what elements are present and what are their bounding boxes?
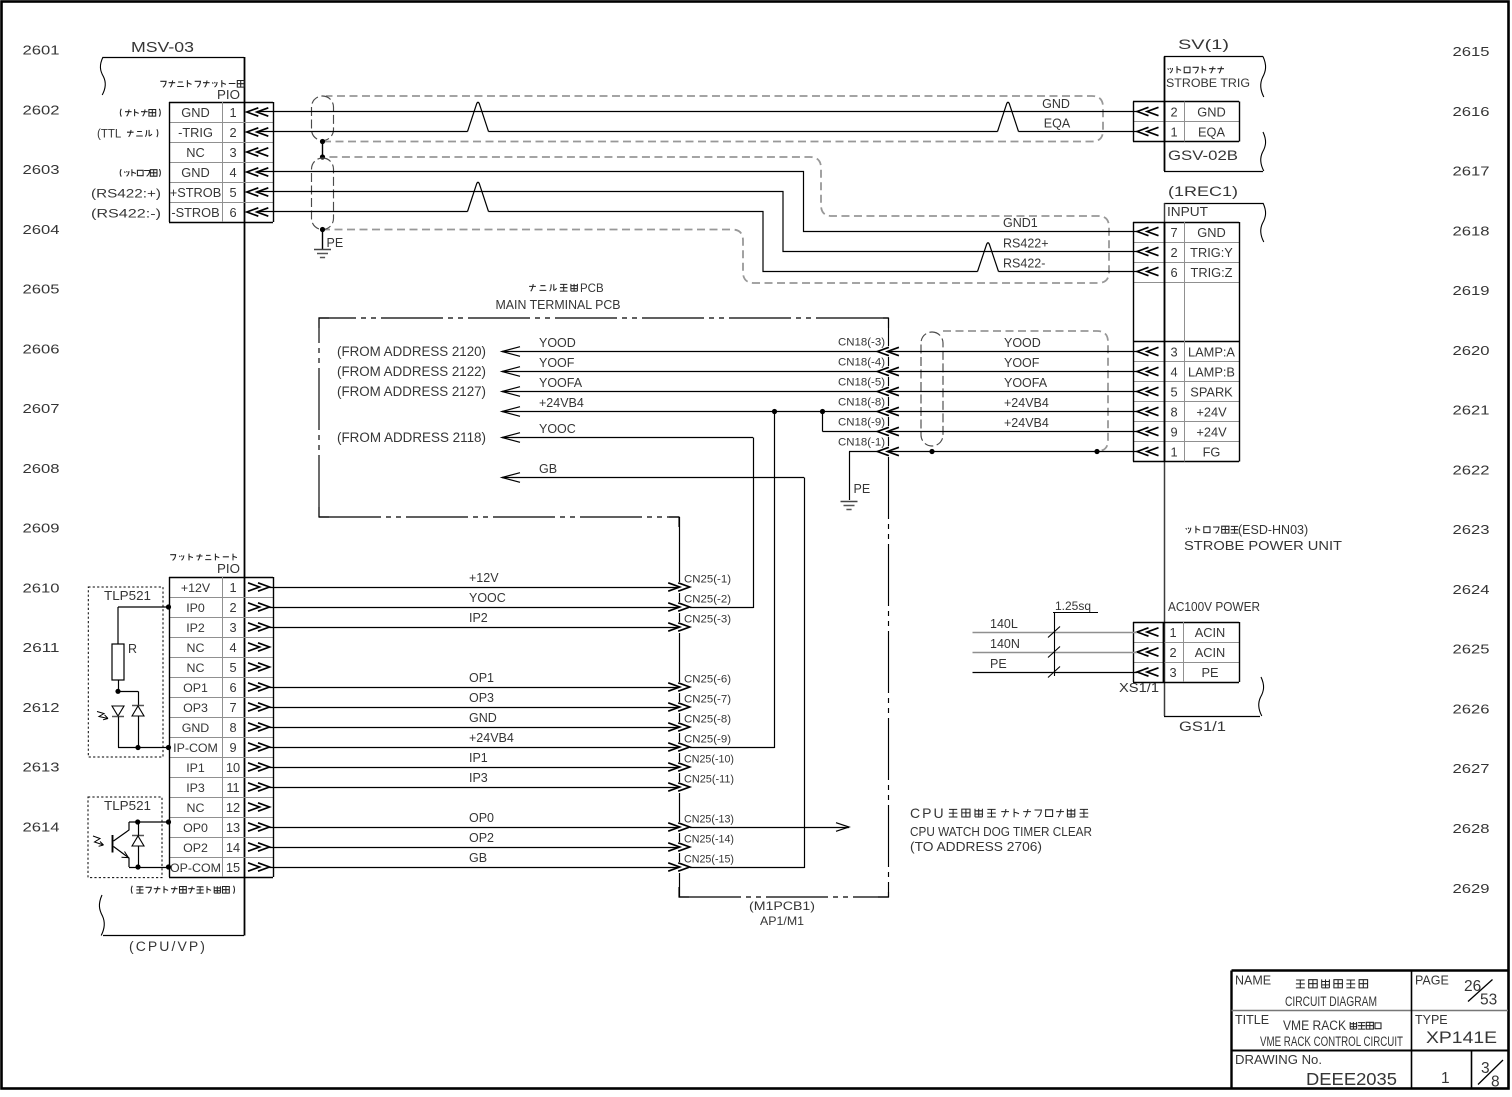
svg-text:GSV-02B: GSV-02B [1168,147,1238,163]
AC table [1133,622,1239,624]
INPUT connector table [1133,222,1239,224]
svg-text:(1REC1): (1REC1) [1168,184,1238,199]
svg-text:YOOF: YOOF [539,356,575,370]
svg-text:CN25(-13): CN25(-13) [684,814,734,826]
main PCB title [529,284,577,291]
PIO connector table [169,577,273,579]
phototransistor base bar [112,835,114,853]
svg-text:2610: 2610 [23,580,60,595]
crossover on EQA left [468,102,489,131]
svg-text:+STROB: +STROB [170,185,222,200]
svg-text:2624: 2624 [1453,582,1490,597]
wire OP2 to CN25(-14) [269,847,679,849]
svg-text:YOOC: YOOC [539,422,576,436]
svg-text:PAGE: PAGE [1415,974,1449,988]
svg-text:140N: 140N [990,637,1020,651]
svg-text:EQA: EQA [1044,117,1071,131]
svg-text:+24VB4: +24VB4 [539,396,584,410]
resistor R [112,644,124,680]
ground PE cable2 [314,249,331,251]
phantom outline corner ticks [319,318,889,897]
svg-text:PE: PE [854,482,871,496]
SV chevrons [1137,107,1149,115]
light arrow [97,712,108,719]
svg-text:2607: 2607 [23,401,60,416]
M1PCB1 left edge (solid, gaps at connectors) [679,517,681,582]
cable 1 twisted pair capsule [312,96,334,141]
svg-text:GB: GB [539,462,557,476]
signal YOOC [502,437,753,439]
wire IP0 to resistor [118,606,169,608]
svg-text:GND: GND [1042,97,1070,111]
strobe power unit name [1186,526,1239,534]
svg-text:12: 12 [226,800,240,815]
svg-text:DEEE2035: DEEE2035 [1306,1069,1397,1089]
wire GB to CN25(-15) [269,867,679,869]
svg-text:TITLE: TITLE [1235,1013,1269,1027]
svg-text:RS422+: RS422+ [1003,237,1049,251]
shield drain junctions [320,139,325,144]
collector wire OP0 [129,821,169,823]
light arrow 2 [93,836,104,845]
svg-text:CN18(-3): CN18(-3) [838,337,885,349]
svg-text:+12V: +12V [181,581,211,595]
svg-text:13: 13 [226,820,240,835]
+24VB4 drop to CN25-9 [774,412,776,749]
svg-text:GND1: GND1 [1003,216,1038,230]
svg-text:-STROB: -STROB [171,205,219,220]
svg-text:NAME: NAME [1235,974,1271,988]
svg-text:7: 7 [1170,225,1177,240]
svg-text:2613: 2613 [23,760,60,775]
svg-text:2626: 2626 [1453,701,1490,716]
svg-text:GND: GND [1197,225,1225,240]
svg-text:IP-COM: IP-COM [173,741,218,755]
svg-text:2618: 2618 [1453,223,1490,238]
svg-text:2627: 2627 [1453,761,1490,776]
svg-text:YOOD: YOOD [1004,336,1041,350]
OP0 watchdog arrow [690,827,849,829]
svg-text:(FROM ADDRESS 2118): (FROM ADDRESS 2118) [337,430,486,445]
svg-text:3: 3 [1169,665,1176,680]
svg-text:DRAWING No.: DRAWING No. [1235,1052,1322,1067]
svg-text:IP3: IP3 [186,781,205,795]
crossover on RS422- right [978,243,999,272]
svg-text:CN25(-10): CN25(-10) [684,754,734,766]
svg-text:1: 1 [1170,124,1177,139]
emitter with arrow [114,847,130,868]
svg-text:1: 1 [1169,625,1176,640]
svg-text:14: 14 [226,840,240,855]
svg-text:R: R [128,642,137,656]
resistor to LED node [118,680,120,691]
svg-text:(CPU/VP): (CPU/VP) [129,939,207,954]
svg-text:INPUT: INPUT [1167,204,1208,219]
svg-text:CN25(-14): CN25(-14) [684,834,734,846]
svg-text:CN18(-1): CN18(-1) [838,437,885,449]
svg-text:OP0: OP0 [183,821,208,835]
svg-text:PIO: PIO [217,88,240,102]
svg-text:CIRCUIT DIAGRAM: CIRCUIT DIAGRAM [1285,994,1377,1009]
svg-text:PE: PE [990,657,1007,671]
wire OP3 to CN25(-7) [269,707,679,709]
cable 2 shield outline [322,157,1109,283]
svg-text:FG: FG [1203,444,1221,459]
wire +24VB4 to CN25(-9) [269,747,679,749]
svg-text:NC: NC [187,661,205,675]
svg-text:ACIN: ACIN [1195,645,1226,660]
svg-text:GND: GND [181,165,209,180]
svg-text:CN25(-7): CN25(-7) [684,694,731,706]
svg-text:VME RACK CONTROL CIRCUIT: VME RACK CONTROL CIRCUIT [1260,1034,1403,1049]
svg-text:8: 8 [229,720,236,735]
svg-text:15: 15 [226,860,240,875]
svg-text:4: 4 [229,165,236,180]
svg-text:2606: 2606 [23,341,60,356]
wire YOOC to CN25(-2) [269,607,679,609]
svg-text:7: 7 [229,700,236,715]
svg-text:LAMP:B: LAMP:B [1188,364,1235,379]
svg-text:4: 4 [229,640,236,655]
FG wire [888,451,1137,453]
svg-text:8: 8 [1170,404,1177,419]
svg-text:CN18(-4): CN18(-4) [838,357,885,369]
svg-text:2628: 2628 [1453,821,1490,836]
wire 140N [973,652,1138,654]
svg-text:CN18(-9): CN18(-9) [838,417,885,429]
wire +STROB pin5 to INPUT 2 [257,192,1137,252]
svg-text:2: 2 [229,125,236,140]
svg-text:IP1: IP1 [186,761,205,775]
svg-text:GND: GND [181,105,209,120]
MSV left pin annotations [120,109,160,117]
wire IP3 to CN25(-11) [269,787,679,789]
wire OP1 to CN25(-6) [269,687,679,689]
svg-text:6: 6 [229,205,236,220]
parallel diode 2 [132,835,144,837]
svg-text:YOOD: YOOD [539,336,576,350]
svg-text:IP2: IP2 [469,611,488,625]
GSV-02B device outline [1164,56,1263,58]
MSV pin chevrons [247,108,258,116]
svg-text:STROBE POWER UNIT: STROBE POWER UNIT [1184,538,1342,553]
signal YOOF [502,371,877,373]
svg-text:2629: 2629 [1453,881,1490,896]
svg-text:YOOFA: YOOFA [539,376,583,390]
single trigger annotation [131,886,234,894]
AC chevrons [1137,628,1149,636]
svg-text:2620: 2620 [1453,343,1490,358]
MSV-03 device outline [103,57,244,59]
svg-text:CN25(-9): CN25(-9) [684,734,731,746]
svg-text:CN25(-15): CN25(-15) [684,854,734,866]
svg-text:IP3: IP3 [469,771,488,785]
svg-text:+24VB4: +24VB4 [1004,416,1049,430]
svg-text:2614: 2614 [23,820,60,835]
bottom wire to IP-COM [118,747,169,749]
svg-text:4: 4 [1170,364,1177,379]
svg-text:GS1/1: GS1/1 [1179,719,1226,734]
svg-text:-TRIG: -TRIG [178,125,213,140]
svg-text:(TO ADDRESS 2706): (TO ADDRESS 2706) [910,839,1042,854]
wire -STROB pin6 to INPUT 6 [257,211,467,213]
svg-text:9: 9 [1170,424,1177,439]
wire GND to CN25(-8) [269,727,679,729]
wire PE [973,672,1138,674]
svg-text:OP-COM: OP-COM [170,861,221,875]
svg-text:XS1/1: XS1/1 [1119,680,1159,695]
svg-text:5: 5 [229,185,236,200]
signal YOOFA [502,391,877,393]
wire GND pin4 to INPUT 7 [257,172,1137,232]
svg-text:(TTL: (TTL [97,129,122,141]
ground PE main pcb [841,501,858,503]
svg-text:+12V: +12V [469,571,499,585]
cable 2 twisted capsule [312,158,334,230]
wire 140L [973,632,1138,634]
crossover on -STROB left [468,182,489,211]
svg-text:OP1: OP1 [183,681,208,695]
svg-text:GND: GND [1197,104,1225,119]
svg-text:STROBE TRIG: STROBE TRIG [1166,76,1250,90]
svg-text:YOOFA: YOOFA [1004,376,1048,390]
svg-text:MSV-03: MSV-03 [131,40,194,56]
signal GB [502,477,804,479]
shield to PE junction [320,227,325,232]
svg-text:(RS422:-): (RS422:-) [91,209,161,221]
svg-text:CN25(-2): CN25(-2) [684,594,731,606]
svg-text:NC: NC [187,641,205,655]
svg-text:2605: 2605 [23,282,60,297]
svg-text:2616: 2616 [1453,104,1490,119]
FG wire to PE [849,451,877,453]
wire +12V to CN25(-1) [269,587,679,589]
svg-text:6: 6 [1170,265,1177,280]
svg-text:OP1: OP1 [469,671,494,685]
svg-text:1: 1 [1170,444,1177,459]
cable 3 capsule [921,332,943,446]
svg-text:3: 3 [229,620,236,635]
svg-text:SPARK: SPARK [1190,384,1233,399]
TLP521 no.1 box [88,587,163,757]
svg-text:GND: GND [182,721,210,735]
svg-text:EQA: EQA [1198,124,1225,139]
svg-text:CN25(-8): CN25(-8) [684,714,731,726]
wire GND pin1 to SV pin2 [257,111,1137,113]
svg-text:2: 2 [1170,245,1177,260]
svg-text:2602: 2602 [23,102,60,117]
wire OP0 to CN25(-13) [269,827,679,829]
svg-text:5: 5 [229,660,236,675]
SV connector table [1133,101,1239,103]
svg-text:OP3: OP3 [469,691,494,705]
svg-text:(FROM ADDRESS 2120): (FROM ADDRESS 2120) [337,344,486,359]
svg-text:NC: NC [187,801,205,815]
wire IP1 to CN25(-10) [269,767,679,769]
svg-text:2617: 2617 [1453,164,1490,179]
signal YOOD [502,351,877,353]
svg-text:1: 1 [229,580,236,595]
cable 3 shield outline [943,331,1108,451]
svg-text:2: 2 [229,600,236,615]
emitter wire OP-COM [129,867,169,869]
svg-text:(FROM ADDRESS 2122): (FROM ADDRESS 2122) [337,364,486,379]
MSV PIO connector table [169,102,273,104]
reverse diode [132,705,144,707]
svg-text:TLP521: TLP521 [104,589,151,603]
svg-text:2622: 2622 [1453,462,1490,477]
svg-text:11: 11 [226,780,239,795]
svg-text:+24VB4: +24VB4 [1004,396,1049,410]
svg-text:AP1/M1: AP1/M1 [760,914,804,928]
svg-text:2625: 2625 [1453,642,1490,657]
svg-text:PE: PE [327,236,344,250]
svg-text:CN25(-3): CN25(-3) [684,614,731,626]
wire EQA pin2 to SV pin1 [257,131,467,133]
svg-text:NC: NC [186,145,204,160]
M1PCB1 right edge (phantom, gaps at CN18) [888,318,890,346]
svg-text:CN18(-8): CN18(-8) [838,397,885,409]
svg-text:2603: 2603 [23,162,60,177]
svg-text:VME RACK: VME RACK [1283,1018,1346,1033]
svg-text:CPU WATCH DOG TIMER CLEAR: CPU WATCH DOG TIMER CLEAR [910,824,1092,839]
svg-text:PCB: PCB [580,283,604,295]
label strobe trig [1168,66,1224,73]
svg-text:2609: 2609 [23,521,60,536]
svg-text:(M1PCB1): (M1PCB1) [749,899,815,913]
svg-text:2608: 2608 [23,461,60,476]
signal +24VB4 [502,411,877,413]
svg-text:(ESD-HN03): (ESD-HN03) [1238,523,1308,537]
svg-text:+24V: +24V [1196,404,1227,419]
svg-text:1: 1 [1441,1070,1450,1087]
svg-text:CN25(-6): CN25(-6) [684,674,731,686]
GB drop to CN25-15 [804,478,806,869]
svg-text:2601: 2601 [23,43,60,58]
title block [1232,969,1509,972]
cable 1 shield outline [323,96,1103,142]
svg-text:YOOC: YOOC [469,591,506,605]
svg-text:GB: GB [469,851,487,865]
svg-text:OP3: OP3 [183,701,208,715]
svg-text:XP141E: XP141E [1426,1029,1497,1047]
svg-text:IP1: IP1 [469,751,488,765]
svg-text:2621: 2621 [1453,403,1490,418]
svg-text:+24VB4: +24VB4 [469,731,514,745]
svg-text:6: 6 [229,680,236,695]
svg-text:TRIG:Y: TRIG:Y [1190,245,1233,260]
photo isolator header [170,554,237,561]
svg-text:140L: 140L [990,617,1018,631]
crossover on EQA right [998,102,1019,131]
TLP521 no.2 box [88,797,162,878]
YOOC drop to CN25-2 [753,438,755,609]
svg-text:RS422-: RS422- [1003,257,1045,271]
svg-text:1: 1 [229,105,236,120]
wire IP2 to CN25(-3) [269,627,679,629]
branch to parallel diode [118,691,138,693]
svg-text:+24V: +24V [1196,424,1227,439]
svg-text:2615: 2615 [1453,44,1490,59]
svg-text:CN25(-1): CN25(-1) [684,574,731,586]
PIO chevrons [248,583,260,591]
svg-text:LAMP:A: LAMP:A [1188,344,1235,359]
cable3 wires to INPUT [888,351,1137,353]
LED diode [112,706,124,716]
svg-text:PE: PE [1201,665,1218,680]
CN18 chevrons and labels [877,347,889,355]
svg-text:3: 3 [229,145,236,160]
svg-text:2: 2 [1169,645,1176,660]
strobe power unit outline [1164,203,1263,205]
svg-text:SV(1): SV(1) [1178,37,1229,52]
svg-text:5: 5 [1170,384,1177,399]
svg-text:AC100V POWER: AC100V POWER [1168,600,1260,614]
svg-text:2623: 2623 [1453,522,1490,537]
INPUT chevrons [1137,227,1149,235]
svg-text:CN25(-11): CN25(-11) [684,774,734,786]
svg-text:ACIN: ACIN [1195,625,1226,640]
svg-text:2612: 2612 [23,700,60,715]
svg-text:OP0: OP0 [469,811,494,825]
svg-text:53: 53 [1480,992,1497,1009]
svg-text:9: 9 [229,740,236,755]
svg-text:(RS422:+): (RS422:+) [91,189,161,201]
svg-text:2: 2 [1170,104,1177,119]
label random shutter PIO [160,80,244,87]
main terminal PCB phantom outline [319,318,889,897]
svg-text:10: 10 [226,760,240,775]
svg-text:YOOF: YOOF [1004,356,1040,370]
svg-text:TRIG:Z: TRIG:Z [1191,265,1233,280]
svg-text:OP2: OP2 [183,841,208,855]
svg-text:2611: 2611 [23,640,60,655]
svg-text:MAIN TERMINAL PCB: MAIN TERMINAL PCB [496,297,621,312]
svg-text:8: 8 [1491,1074,1500,1091]
svg-text:(FROM ADDRESS 2127): (FROM ADDRESS 2127) [337,384,486,399]
svg-text:IP0: IP0 [186,601,205,615]
svg-text:CPU: CPU [910,805,946,821]
svg-text:OP2: OP2 [469,831,494,845]
svg-text:CN18(-5): CN18(-5) [838,377,885,389]
svg-text:1.25sq: 1.25sq [1055,599,1091,613]
+24VB4 branch to CN18-9 [822,412,824,432]
svg-text:IP2: IP2 [186,621,205,635]
svg-text:2619: 2619 [1453,283,1490,298]
svg-text:TLP521: TLP521 [104,799,151,813]
svg-text:3: 3 [1170,344,1177,359]
svg-text:GND: GND [469,711,497,725]
svg-text:TYPE: TYPE [1415,1013,1448,1027]
svg-text:PIO: PIO [217,562,240,576]
svg-text:2604: 2604 [23,222,60,237]
